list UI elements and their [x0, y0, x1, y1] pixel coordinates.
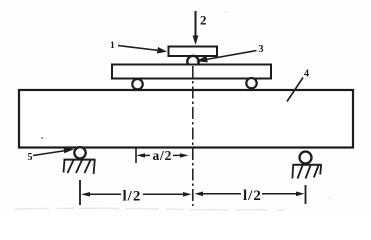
svg-text:1: 1 [110, 41, 115, 51]
l/2 left dimension line [81, 192, 90, 197]
left support roller [74, 147, 85, 158]
top plate [169, 47, 218, 57]
leader line 3 [206, 51, 257, 60]
svg-text:l/2: l/2 [123, 189, 142, 205]
svg-text:2: 2 [200, 13, 207, 28]
right support base [293, 164, 322, 166]
leader line 5 [33, 151, 66, 156]
a/2 dimension line right arrow [173, 154, 181, 156]
centerline (dash-dot) [192, 66, 194, 206]
svg-text:3: 3 [259, 44, 264, 55]
l/2 right extension tick [305, 185, 307, 204]
l/2 left extension tick [79, 180, 81, 205]
right loading roller [246, 78, 256, 88]
scan smudge [15, 208, 285, 210]
l/2 right dimension line [195, 192, 204, 197]
speckle [41, 137, 43, 139]
right support roller [300, 152, 312, 164]
load roller [187, 56, 198, 67]
svg-text:l/2: l/2 [243, 188, 262, 204]
svg-text:5: 5 [28, 152, 33, 163]
load arrow (applied force) [195, 11, 197, 38]
left support hatching [64, 160, 95, 175]
a/2 dimension tick [135, 148, 137, 164]
left support base [64, 159, 96, 161]
main beam (specimen) [19, 90, 353, 148]
leader line 4 [287, 78, 303, 102]
spreader beam [112, 65, 271, 79]
svg-text:a/2: a/2 [153, 148, 173, 163]
left loading roller [132, 79, 142, 89]
a/2 dimension line left arrow [137, 153, 146, 157]
svg-text:4: 4 [304, 69, 309, 80]
leader line 1 [118, 46, 159, 51]
right support hatching [292, 165, 321, 179]
